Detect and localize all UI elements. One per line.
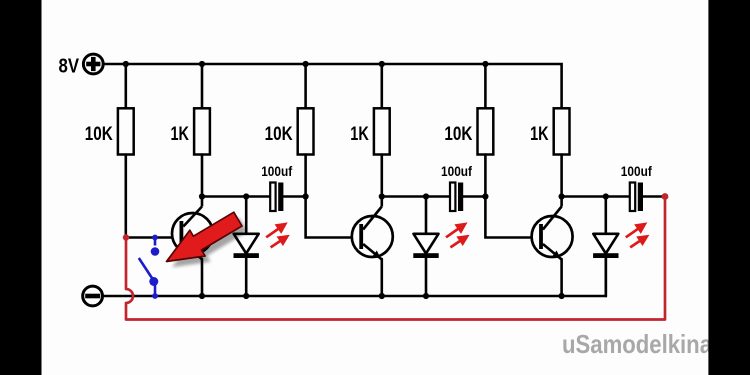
wire: LED D1 cathode to ground rail (245, 258, 248, 296)
LED D3 (593, 234, 618, 258)
svg-text:10K: 10K (444, 124, 472, 145)
battery positive terminal (8V source) (83, 54, 103, 74)
wire: top rail to resistor R5 (484, 64, 487, 110)
wire: R4 bottom lead to collector node (380, 155, 383, 197)
svg-text:100uf: 100uf (441, 164, 472, 179)
resistor R5 (10K) (478, 108, 494, 154)
svg-text:1K: 1K (530, 124, 549, 145)
wire: capacitor C1 output lead (283, 195, 305, 198)
node: red wire junction at C3 output (662, 193, 669, 200)
wire: LED D2 cathode to ground rail (425, 258, 428, 296)
right letterbox bar (708, 0, 750, 375)
wire: Q2 emitter to ground rail (380, 259, 383, 296)
capacitor C2 (100uf electrolytic) (450, 183, 463, 212)
junction dots on ground rail (199, 293, 565, 299)
wire: R2 bottom lead to collector node (201, 155, 204, 197)
wire: collector node horizontal to capacitor C3 (562, 195, 631, 198)
wire: R5 bottom lead (base node stage 3) (484, 155, 487, 197)
red feedback wire from C3 output to Q1 base (with hop over ground wire) (126, 197, 665, 320)
wire: top rail to resistor R2 (201, 64, 204, 110)
transistor Q2 (NPN) (352, 197, 393, 260)
wire: LED D1 anode lead (245, 197, 248, 235)
wire: LED D2 anode lead (425, 197, 428, 235)
wire: R3 bottom lead (base node stage 2) (304, 155, 307, 197)
wire: Q1 emitter to ground rail (201, 259, 204, 296)
wire: capacitor C2 output lead (463, 195, 485, 198)
big red annotation arrow pointing at switch (167, 212, 243, 261)
svg-text:100uf: 100uf (621, 164, 652, 179)
capacitor C1 (100uf electrolytic) (270, 183, 283, 212)
wire: collector node horizontal to capacitor C2 (382, 195, 451, 198)
LED D2 light emission arrows (446, 224, 467, 247)
svg-text:100uf: 100uf (261, 164, 292, 179)
junction dots on collector/coupling nodes (199, 193, 609, 199)
svg-text:1K: 1K (171, 124, 190, 145)
capacitor C3 (100uf electrolytic) (630, 183, 643, 212)
transistor Q1 (NPN) (172, 197, 213, 260)
wire: collector node horizontal to capacitor C1 (202, 195, 271, 198)
junction dots on power rail (123, 61, 489, 67)
LED D3 light emission arrows (626, 224, 647, 247)
resistor R3 (10K) (298, 108, 314, 154)
wire: +8V top power rail with corner down to R6 (103, 64, 561, 110)
wire: coupling node down to Q2 base (306, 197, 360, 238)
wire: top rail to resistor R3 (304, 64, 307, 110)
wire: capacitor C3 output lead (643, 195, 665, 198)
wire: Q1 base lead (126, 236, 180, 239)
LED D1 (234, 234, 259, 258)
switch S1 (blue, open) across Q1 base to ground (139, 235, 160, 299)
transistor Q3 (NPN) (532, 197, 573, 260)
LED D1 light emission arrows (266, 224, 287, 247)
svg-text:10K: 10K (85, 124, 113, 145)
big red annotation arrow shadow (172, 218, 248, 267)
wire: LED D3 anode lead (604, 197, 607, 235)
svg-text:10K: 10K (265, 124, 293, 145)
wire: top rail to resistor R4 (380, 64, 383, 110)
wire: R6 bottom lead to collector node (560, 155, 563, 197)
svg-text:8V: 8V (59, 56, 80, 78)
resistor R2 (1K) (194, 108, 210, 154)
wire: LED D3 cathode to ground rail (604, 258, 607, 296)
resistor R4 (1K) (374, 108, 390, 154)
resistor R6 (1K) (554, 108, 570, 154)
wire: R1 bottom lead (base node stage 1) (125, 155, 128, 238)
wire: ground / negative bottom rail (102, 258, 605, 296)
node: red wire junction at Q1 base (123, 234, 129, 240)
svg-text:1K: 1K (350, 124, 369, 145)
left letterbox bar (0, 0, 42, 375)
wire: coupling node down to Q3 base (485, 197, 539, 238)
wire: top rail to resistor R1 (125, 64, 128, 110)
battery negative terminal (83, 286, 103, 306)
LED D2 (413, 234, 438, 258)
svg-text:uSamodelkina: uSamodelkina (562, 329, 712, 359)
resistor R1 (10K) (118, 108, 134, 154)
wire: Q3 emitter to ground rail (560, 259, 563, 296)
